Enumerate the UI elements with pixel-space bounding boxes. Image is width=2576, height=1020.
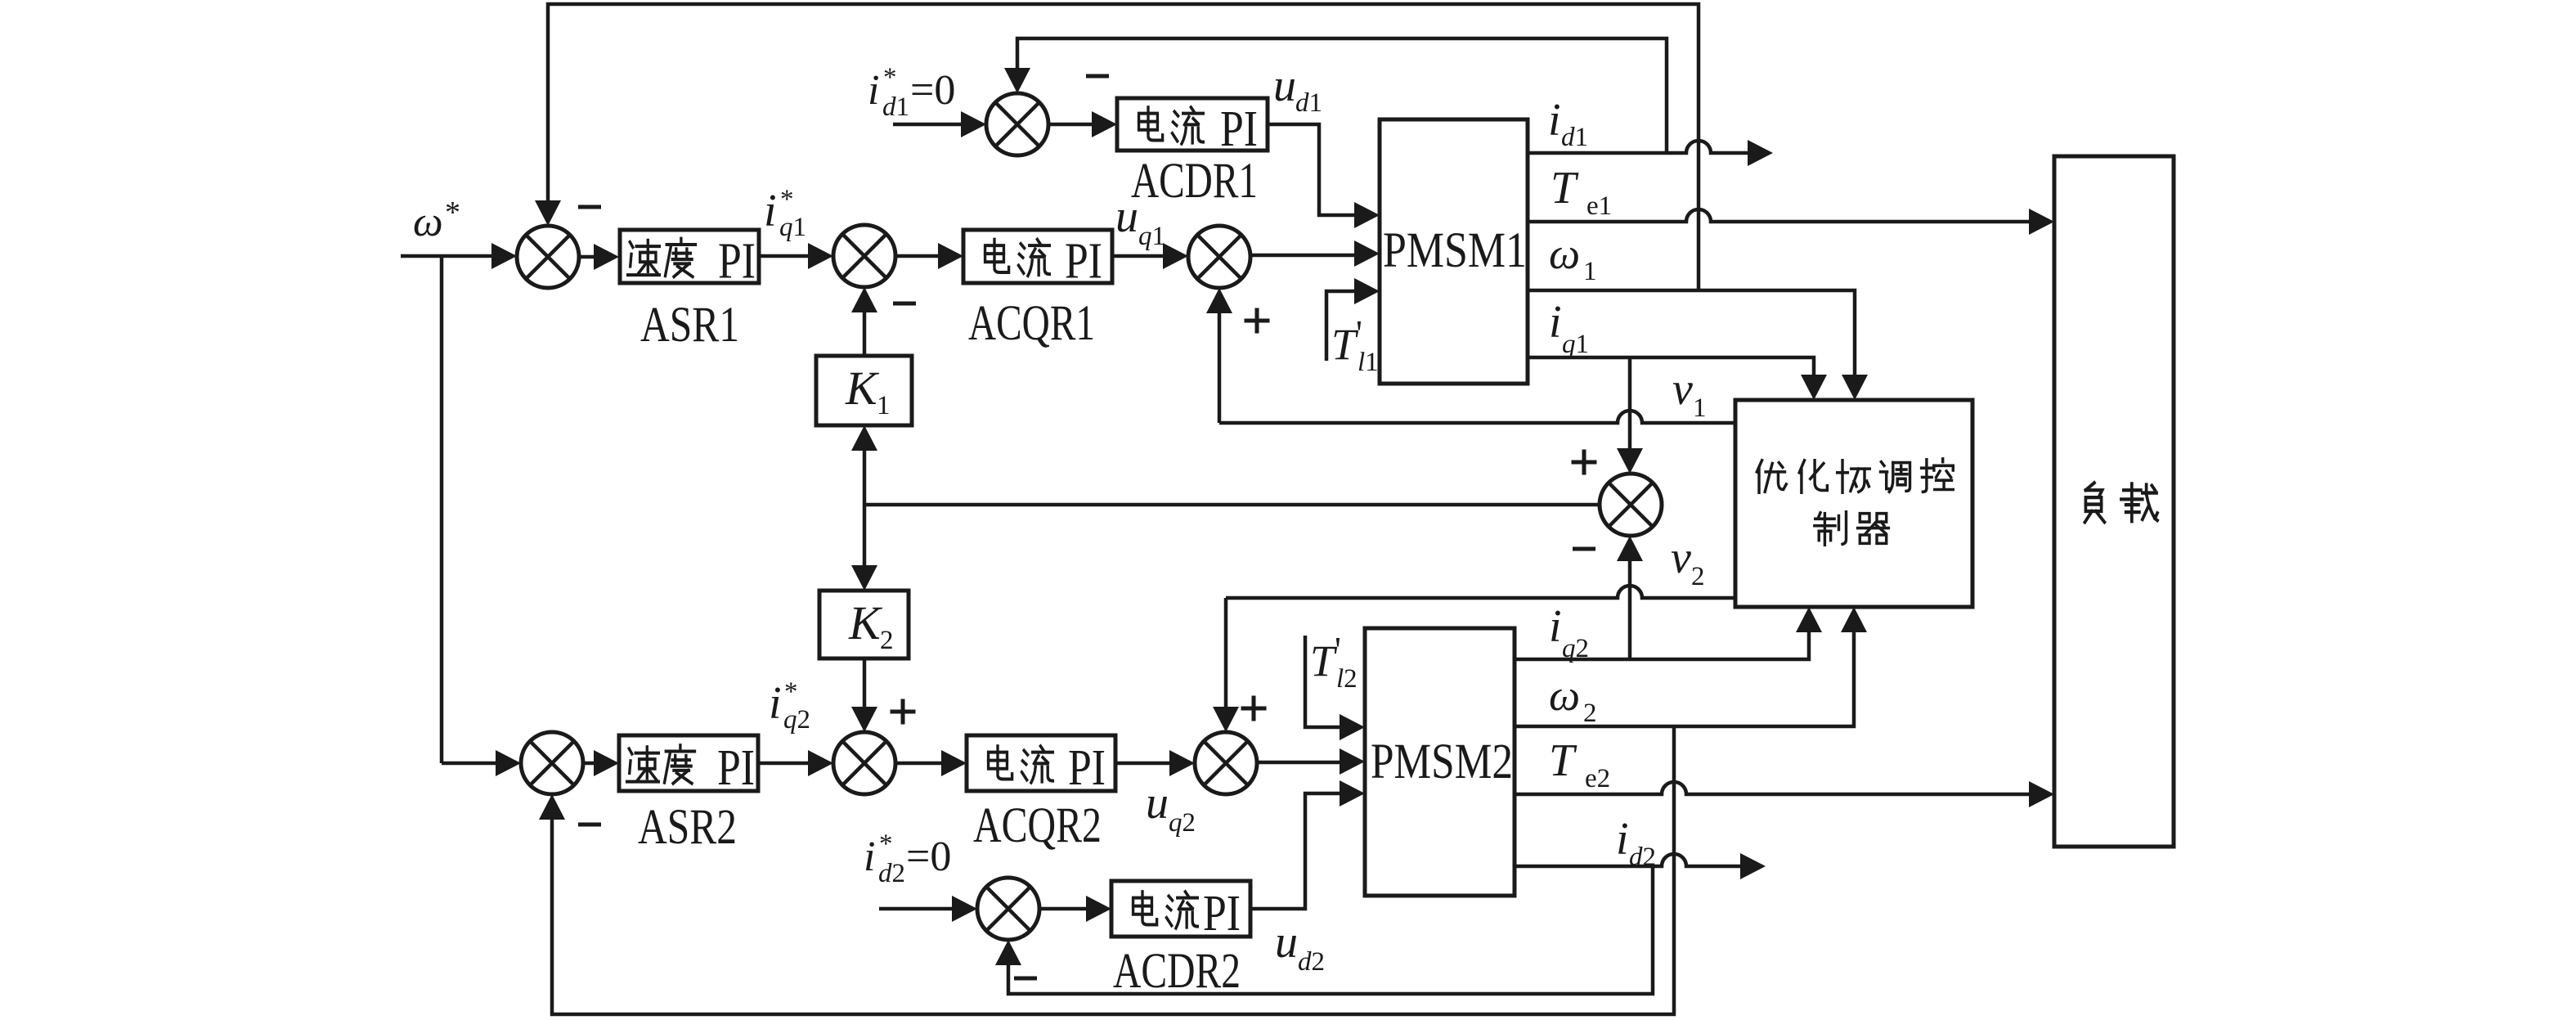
svg-text:': ' (1356, 313, 1362, 353)
wire omega1 feedback: up at x=2077, across top y=5, down into S1 (535, 4, 1699, 290)
svg-text:i: i (1616, 814, 1629, 865)
wire iq2 output to controller (1515, 607, 1822, 659)
wire S4 to ACDR1 box (1048, 111, 1117, 137)
svg-text:*: * (780, 185, 794, 214)
svg-text:d2: d2 (878, 859, 905, 888)
svg-text:u: u (1273, 61, 1296, 111)
svg-text:1: 1 (1693, 393, 1707, 423)
label iq1 (1549, 297, 1589, 359)
label omega* (413, 195, 460, 245)
svg-text:ASR2: ASR2 (638, 800, 737, 855)
label v2 (1671, 532, 1705, 591)
wire vsum output to K1/K2 split (864, 503, 1599, 507)
summing junction S5 (K2 correction) (833, 732, 895, 794)
svg-text:*: * (784, 677, 798, 707)
svg-text:T: T (1549, 735, 1577, 786)
summing junction S1b (speed error motor2) (521, 732, 583, 794)
label Te1 (1551, 163, 1612, 221)
svg-text:PI: PI (1203, 886, 1241, 941)
label iq2 reference (769, 677, 810, 735)
wire S6 to PMSM2 q-input (1257, 748, 1365, 775)
wire iq1 branch down to vsum junction (1617, 357, 1643, 474)
svg-text:1: 1 (1583, 257, 1597, 286)
svg-text:PI: PI (717, 740, 755, 796)
block ASR2 speed PI (619, 735, 758, 796)
svg-text:d2: d2 (1298, 947, 1325, 977)
svg-text:ω: ω (1549, 671, 1580, 720)
svg-text:i: i (1548, 95, 1561, 146)
wire omega* into S1b input (442, 750, 521, 776)
wire ACQR2 to S6 (1115, 750, 1195, 776)
svg-text:1: 1 (877, 391, 891, 420)
label ACDR1 (1131, 154, 1258, 209)
label id2 (1616, 814, 1656, 872)
svg-text:ACQR2: ACQR2 (973, 798, 1102, 853)
svg-text:q2: q2 (1169, 808, 1196, 838)
svg-text:ASR1: ASR1 (640, 298, 739, 353)
wire id1 feedback: up at x=2038, across y=47, down into S4 (1004, 38, 1667, 152)
svg-text:d1: d1 (882, 92, 909, 122)
sign minus at S8 bottom right (1014, 977, 1037, 981)
label iq2 (1549, 601, 1589, 663)
svg-text:2: 2 (1583, 699, 1597, 728)
sign plus at S6 top right (1241, 696, 1267, 721)
label Tl2 (1310, 630, 1358, 694)
svg-text:ACQR1: ACQR1 (968, 296, 1095, 351)
svg-text:PI: PI (718, 234, 756, 290)
wire id2 output with hop (1515, 853, 1766, 879)
block PMSM2 (1365, 628, 1515, 896)
wire id1 ref input to S4 (893, 111, 986, 137)
svg-text:q1: q1 (1562, 330, 1589, 359)
wire v1 from controller to S3 (1206, 288, 1735, 423)
label ACQR2 (973, 798, 1102, 853)
sign minus at S2 bottom (893, 302, 916, 306)
wire id2 feedback down to S8 (995, 866, 1653, 994)
label ASR2 (638, 800, 737, 855)
wire K2 to S5 (851, 658, 877, 732)
svg-text:q1: q1 (779, 213, 806, 242)
svg-text:': ' (1335, 630, 1341, 670)
svg-text:T: T (1331, 320, 1359, 369)
svg-text:u: u (1146, 778, 1169, 829)
wire omega2 output to controller (1515, 607, 1867, 726)
svg-text:i: i (868, 67, 879, 114)
wire S3 to PMSM1 uq1 input (1250, 240, 1380, 267)
svg-text:*: * (883, 63, 897, 92)
block ACQR2 current PI (967, 735, 1115, 796)
label Tl1 (1331, 313, 1379, 377)
summing junction S2 (K1 torque correction) (833, 225, 895, 287)
block coordination controller (1735, 400, 1972, 607)
svg-text:u: u (1275, 917, 1298, 968)
label omega2 (1549, 671, 1597, 728)
wire S2 to ACQR1 (895, 243, 963, 269)
label ud2 (1275, 917, 1325, 977)
svg-text:=0: =0 (910, 67, 955, 114)
label uq1 (1115, 191, 1165, 251)
wire iq1 output to controller (1528, 357, 1827, 400)
svg-text:K: K (845, 362, 880, 415)
block PMSM1 (1380, 119, 1528, 384)
input Tl2 load torque stub (1305, 636, 1365, 740)
node omega* input wire with branch at x=540 (401, 243, 517, 763)
wire ACQR1 to S3 (1112, 243, 1188, 269)
wire Te1 to load with hop (1528, 209, 2054, 235)
wire S1b to ASR2 (583, 750, 619, 776)
summing junction S6 (uq2 + v2) (1195, 732, 1257, 794)
summing junction S1 (speed error motor1) (517, 226, 579, 288)
svg-text:*: * (879, 829, 893, 859)
wire id2 ref input to S8 (879, 896, 977, 922)
wire Te2 to load with hop (1515, 781, 2054, 807)
label ud1 (1273, 61, 1322, 118)
svg-text:i: i (764, 186, 777, 236)
label omega1 (1549, 229, 1597, 286)
label ACDR2 (1113, 944, 1241, 999)
svg-text:e1: e1 (1586, 191, 1612, 221)
wire ASR1 to S2 (759, 243, 833, 269)
wire omega1 output to controller (1528, 290, 1868, 400)
summing junction S4 (ACDR1 d-axis error) (986, 93, 1048, 155)
wire id1 output with hop (1528, 140, 1773, 166)
input Tl1 load torque stub (1326, 278, 1380, 361)
svg-text:2: 2 (1691, 562, 1705, 591)
sign minus at S1b bottom (578, 823, 601, 827)
svg-text:q1: q1 (1138, 222, 1165, 251)
svg-text:ACDR1: ACDR1 (1131, 154, 1258, 209)
wire K1 to S2 (851, 287, 877, 356)
summing junction S3 (uq1 + v1) (1188, 226, 1250, 288)
sign minus at S7 bottom left (1573, 547, 1595, 551)
svg-text:e2: e2 (1585, 764, 1610, 793)
wire ASR2 to S5 (758, 750, 833, 776)
label id1*=0 (868, 63, 955, 122)
block ACQR1 current PI (963, 230, 1112, 290)
label ACQR1 (968, 296, 1095, 351)
wire S1 to ASR1 (579, 244, 619, 270)
wire S8 to ACDR2 box (1039, 896, 1111, 922)
svg-text:PI: PI (1065, 234, 1102, 290)
sign minus at S4 top right (1086, 74, 1109, 79)
sign plus at S3 bottom right (1245, 308, 1270, 334)
label id1 (1548, 95, 1588, 152)
sign minus at S1 top (578, 205, 601, 209)
svg-text:q2: q2 (783, 705, 810, 735)
label Te2 (1549, 735, 1610, 793)
svg-text:i: i (864, 834, 875, 880)
sign plus at S7 top left (1572, 450, 1597, 475)
wire ud1 to PMSM1 d-input (1268, 124, 1380, 228)
summing junction S7 (v1 - v2) (1600, 474, 1662, 536)
svg-text:ACDR2: ACDR2 (1113, 944, 1241, 999)
svg-text:q2: q2 (1562, 634, 1589, 663)
svg-text:ω: ω (1549, 229, 1580, 278)
label id2*=0 (864, 829, 951, 888)
wire split up into K1 (851, 425, 877, 505)
label ASR1 (640, 298, 739, 353)
svg-text:PI: PI (1068, 740, 1106, 796)
wire v2 from controller to S6 (1213, 586, 1735, 732)
wire split down into K2 (851, 505, 877, 591)
svg-text:i: i (1549, 297, 1562, 348)
svg-text:T: T (1310, 636, 1338, 685)
svg-text:K: K (848, 596, 883, 649)
svg-text:PI: PI (1220, 101, 1258, 157)
svg-text:i: i (1549, 601, 1562, 652)
svg-text:*: * (445, 195, 460, 230)
svg-text:v: v (1672, 364, 1693, 415)
svg-text:ω: ω (413, 199, 443, 245)
svg-text:i: i (769, 678, 782, 729)
label uq2 (1146, 778, 1196, 838)
block load (2054, 156, 2174, 847)
wire ud2 to PMSM2 d-input (1250, 780, 1365, 909)
label v1 (1672, 364, 1707, 423)
svg-text:T: T (1551, 163, 1579, 213)
label iq1 reference (764, 185, 806, 242)
svg-text:d1: d1 (1295, 88, 1322, 118)
block ASR1 speed PI (620, 230, 759, 290)
block ACDR2 current PI (1111, 881, 1250, 941)
block ACDR1 current PI (1117, 98, 1268, 157)
svg-text:PMSM2: PMSM2 (1371, 735, 1513, 789)
summing junction S8 (ACDR2 d-axis error) (977, 878, 1039, 940)
wire iq2 branch up into vsum bottom (1617, 536, 1643, 659)
svg-text:=0: =0 (906, 834, 951, 880)
block K1 (816, 356, 912, 425)
svg-text:d1: d1 (1561, 123, 1588, 152)
sign plus at S5 top (891, 699, 916, 725)
svg-text:PMSM1: PMSM1 (1383, 223, 1527, 278)
wire omega2 feedback to S1b (539, 726, 1674, 1014)
svg-text:2: 2 (880, 626, 894, 655)
block K2 (819, 591, 909, 658)
svg-text:v: v (1671, 532, 1691, 583)
wire S5 to ACQR2 (895, 750, 967, 776)
